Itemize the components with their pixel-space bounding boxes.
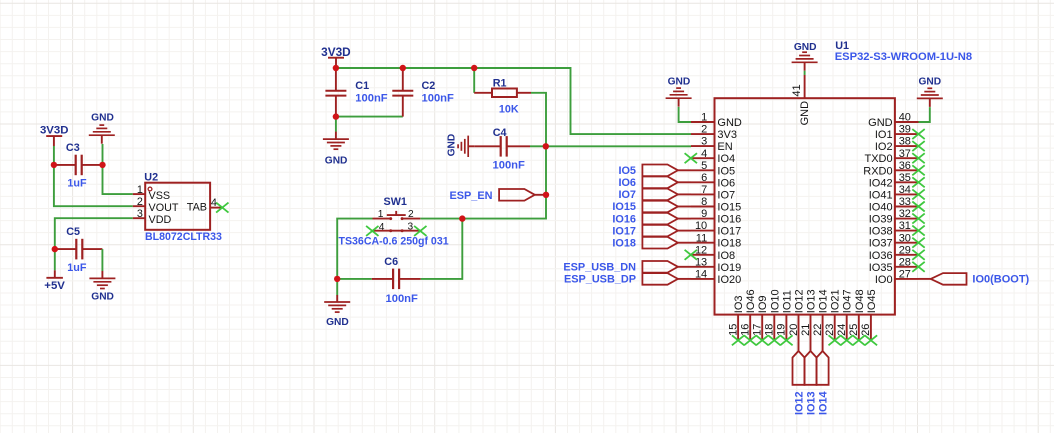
svg-text:1: 1: [137, 184, 143, 196]
svg-text:IO2: IO2: [875, 141, 893, 153]
ground GND (below C1): [323, 132, 349, 167]
svg-text:IO42: IO42: [869, 177, 893, 189]
svg-text:28: 28: [899, 256, 911, 268]
svg-text:IO13: IO13: [806, 289, 818, 313]
svg-text:IO8: IO8: [717, 250, 735, 262]
svg-text:IO36: IO36: [869, 250, 893, 262]
svg-text:VSS: VSS: [149, 190, 171, 202]
svg-text:3: 3: [408, 222, 414, 233]
junction at C3 right: [99, 162, 105, 168]
net tag IO18: [612, 237, 691, 250]
capacitor C1: [325, 68, 346, 117]
svg-text:2: 2: [408, 209, 414, 220]
svg-text:30: 30: [899, 232, 911, 244]
svg-text:7: 7: [701, 184, 707, 196]
wire C6 to SW1-right junction: [421, 219, 463, 279]
svg-text:IO12: IO12: [793, 391, 805, 415]
power flag +5V: [44, 270, 65, 292]
U1 bottom pin numbers: [727, 324, 872, 336]
wire EN net to SW1: [420, 146, 546, 218]
svg-text:VDD: VDD: [149, 214, 172, 226]
wire C4 to EN junction: [530, 145, 546, 147]
U1 right pin names: [863, 117, 892, 286]
svg-text:6: 6: [701, 172, 707, 184]
svg-text:32: 32: [899, 208, 911, 220]
svg-text:IO1: IO1: [875, 129, 893, 141]
svg-text:TS36CA-0.6 250gf 031: TS36CA-0.6 250gf 031: [339, 235, 449, 247]
label C1: [355, 80, 369, 92]
svg-text:GND: GND: [447, 134, 458, 157]
svg-text:ESP32-S3-WROOM-1U-N8: ESP32-S3-WROOM-1U-N8: [835, 51, 972, 63]
U1 bottom pin names: [733, 289, 878, 313]
no-connect X on U1 pin 12: [685, 250, 697, 260]
svg-text:IO20: IO20: [717, 274, 741, 286]
svg-text:4: 4: [701, 148, 707, 160]
U1 bottom pin leads: [738, 315, 871, 351]
svg-text:37: 37: [899, 148, 911, 160]
svg-text:IO48: IO48: [854, 289, 866, 313]
svg-text:C5: C5: [66, 226, 80, 238]
no-connect X on U1 pin 4: [685, 153, 697, 163]
no-connect X on U1 bottom pins 15-19: [732, 335, 793, 345]
svg-text:40: 40: [899, 112, 911, 124]
svg-text:IO18: IO18: [612, 237, 636, 249]
net tag IO12 (bottom): [793, 351, 806, 415]
capacitor C2: [392, 68, 413, 117]
wire EN to U1 pin 3: [546, 145, 691, 147]
U1 pin 41 name: [799, 101, 811, 126]
wire rail to R1: [473, 68, 475, 93]
svg-text:27: 27: [899, 269, 911, 281]
svg-text:2: 2: [137, 196, 143, 208]
svg-text:IO14: IO14: [818, 391, 830, 415]
svg-text:GND: GND: [868, 117, 893, 129]
svg-text:IO3: IO3: [733, 295, 745, 313]
svg-text:36: 36: [899, 160, 911, 172]
no-connect X on SW1 pin 4: [366, 226, 378, 236]
svg-text:24: 24: [836, 324, 848, 336]
svg-text:3V3: 3V3: [717, 129, 737, 141]
svg-text:18: 18: [764, 324, 776, 336]
no-connect X on U1 bottom pins 23-26: [829, 335, 878, 345]
wire C3 to U2 pin 1: [103, 165, 133, 194]
svg-text:IO40: IO40: [869, 202, 893, 214]
label C4: [493, 127, 507, 139]
svg-text:C1: C1: [355, 80, 369, 92]
net tag IO14 (bottom): [817, 351, 830, 415]
wire C6 left: [337, 278, 372, 280]
svg-text:22: 22: [812, 324, 824, 336]
svg-text:IO21: IO21: [830, 289, 842, 313]
label C3: [66, 142, 80, 154]
ground GND (top of C3): [89, 112, 115, 143]
label C5: [66, 226, 80, 238]
svg-text:23: 23: [824, 324, 836, 336]
net tag IO6: [618, 177, 691, 190]
svg-text:10: 10: [695, 220, 707, 232]
svg-text:C3: C3: [66, 142, 80, 154]
ground GND (left of C4, sideways): [447, 134, 475, 157]
svg-text:RXD0: RXD0: [863, 165, 892, 177]
no-connect X on U2 TAB: [216, 203, 228, 213]
svg-text:16: 16: [740, 324, 752, 336]
wire U2 pin 3 to C5: [55, 218, 133, 249]
svg-text:19: 19: [776, 324, 788, 336]
svg-text:R1: R1: [493, 77, 507, 89]
wire SW1 pin 1 to GND net: [337, 219, 372, 279]
svg-text:33: 33: [899, 196, 911, 208]
svg-text:100nF: 100nF: [493, 159, 525, 171]
wire GND to U1 pin 1: [679, 107, 691, 122]
junction EN at C4: [543, 143, 549, 149]
wire C6 to GND: [336, 279, 338, 295]
svg-text:SW1: SW1: [384, 196, 407, 208]
no-connect X on U1 right pins 39-28: [912, 129, 924, 272]
label SW1: [384, 196, 407, 208]
U1 right pin numbers: [899, 112, 911, 281]
junction rail at R1: [471, 65, 477, 71]
svg-text:IO47: IO47: [842, 289, 854, 313]
svg-text:GND: GND: [91, 292, 114, 303]
wire R1 to EN net: [531, 93, 546, 147]
svg-text:+5V: +5V: [44, 280, 65, 292]
svg-text:IO13: IO13: [805, 391, 817, 415]
net tag ESP_USB_DP: [564, 273, 691, 286]
svg-text:GND: GND: [918, 76, 941, 87]
net tag IO7: [618, 189, 691, 202]
wire 3V3D to U2 pin 2: [54, 165, 133, 206]
svg-text:1uF: 1uF: [67, 262, 87, 274]
svg-text:100nF: 100nF: [355, 92, 387, 104]
svg-text:VOUT: VOUT: [149, 202, 179, 214]
svg-text:ESP_EN: ESP_EN: [450, 190, 493, 202]
svg-text:EN: EN: [717, 141, 732, 153]
svg-text:2: 2: [701, 124, 707, 136]
svg-text:TXD0: TXD0: [864, 153, 892, 165]
svg-text:4: 4: [379, 222, 385, 233]
no-connect X on SW1 pin 3: [414, 226, 426, 236]
svg-text:ESP_USB_DN: ESP_USB_DN: [563, 262, 636, 274]
U1 top pin 41 lead: [804, 75, 806, 99]
svg-text:IO0: IO0: [875, 274, 893, 286]
value 100nF (C4): [493, 159, 525, 171]
svg-text:IO10: IO10: [769, 289, 781, 313]
wire C5 to GND: [101, 249, 103, 271]
svg-text:IO6: IO6: [717, 177, 735, 189]
svg-text:C6: C6: [384, 256, 398, 268]
svg-text:31: 31: [899, 220, 911, 232]
svg-text:IO35: IO35: [869, 262, 893, 274]
svg-text:29: 29: [899, 244, 911, 256]
svg-text:IO9: IO9: [757, 295, 769, 313]
svg-text:3V3D: 3V3D: [40, 125, 69, 137]
svg-text:IO6: IO6: [618, 177, 636, 189]
wire C5 to +5V: [54, 249, 56, 270]
net tag ESP_USB_DN: [563, 261, 691, 274]
svg-text:IO5: IO5: [618, 165, 636, 177]
U1 left pin names: [717, 117, 742, 286]
svg-text:IO37: IO37: [869, 238, 893, 250]
svg-text:1: 1: [378, 209, 384, 220]
svg-text:GND: GND: [799, 101, 811, 126]
wire ESP_EN tag to EN net: [535, 194, 546, 196]
svg-text:IO12: IO12: [794, 289, 806, 313]
svg-text:IO45: IO45: [866, 289, 878, 313]
svg-text:GND: GND: [717, 117, 742, 129]
label C6: [384, 256, 398, 268]
svg-text:IO39: IO39: [869, 214, 893, 226]
svg-text:ESP_USB_DP: ESP_USB_DP: [564, 274, 636, 286]
value 1uF (C3): [67, 177, 87, 189]
junction SW1 right / C6 riser: [459, 215, 465, 221]
ground GND (U1 pin 41): [792, 42, 818, 71]
label R1: [493, 77, 507, 89]
value 100nF (C6): [386, 293, 418, 305]
wire 3V3D rail to U1 pin 2: [336, 68, 691, 134]
svg-text:1uF: 1uF: [67, 177, 87, 189]
svg-text:IO17: IO17: [717, 226, 741, 238]
svg-text:IO7: IO7: [717, 189, 735, 201]
label U1: [835, 40, 849, 52]
svg-text:IO16: IO16: [612, 213, 636, 225]
svg-text:38: 38: [899, 136, 911, 148]
value ESP32-S3-WROOM-1U-N8: [835, 51, 972, 63]
power flag 3V3D (left): [40, 125, 69, 146]
IC U1 body: [715, 98, 895, 314]
net tag IO5: [618, 165, 691, 178]
capacitor C3: [54, 155, 103, 176]
svg-text:IO7: IO7: [618, 189, 636, 201]
U1 right pin leads: [895, 122, 919, 279]
svg-text:IO15: IO15: [717, 202, 741, 214]
svg-text:20: 20: [788, 324, 800, 336]
svg-text:GND: GND: [668, 77, 691, 88]
svg-text:8: 8: [701, 196, 707, 208]
svg-text:GND: GND: [91, 112, 114, 123]
capacitor C4: [474, 136, 530, 157]
svg-text:IO16: IO16: [717, 214, 741, 226]
svg-text:17: 17: [752, 324, 764, 336]
net tag IO17: [612, 225, 691, 238]
junction C6 left: [334, 276, 340, 282]
svg-text:U2: U2: [144, 172, 158, 184]
svg-text:IO38: IO38: [869, 226, 893, 238]
value 10K: [499, 103, 519, 115]
svg-text:IO46: IO46: [745, 289, 757, 313]
label U2: [144, 172, 158, 184]
svg-text:C2: C2: [422, 80, 436, 92]
svg-text:3: 3: [137, 208, 143, 220]
junction at C5 left: [52, 246, 58, 252]
svg-text:IO4: IO4: [717, 153, 735, 165]
svg-text:13: 13: [695, 256, 707, 268]
ground GND (below C5): [89, 271, 115, 303]
svg-text:100nF: 100nF: [386, 293, 418, 305]
wire GND to U1 pin 41: [804, 71, 806, 75]
net tag IO15: [612, 201, 691, 214]
svg-text:1: 1: [701, 112, 707, 124]
svg-text:39: 39: [899, 124, 911, 136]
SW1 pin numbers: [378, 209, 414, 233]
svg-text:C4: C4: [493, 127, 507, 139]
svg-text:IO5: IO5: [717, 165, 735, 177]
wire C1 to C2 (gnd link): [336, 116, 403, 118]
ground GND (below SW1): [324, 295, 350, 328]
capacitor C5: [55, 239, 103, 260]
value TS36CA-0.6 250gf 031: [339, 235, 449, 247]
wire GND to C3: [102, 144, 104, 165]
resistor R1: [474, 89, 531, 98]
svg-text:11: 11: [696, 232, 707, 244]
value 100nF (C1): [355, 92, 387, 104]
ground GND (U1 pin 1): [666, 77, 692, 107]
svg-text:TAB: TAB: [187, 202, 207, 214]
svg-text:IO14: IO14: [818, 289, 830, 313]
wire 3V3D to C3: [53, 146, 55, 165]
svg-text:IO11: IO11: [781, 290, 793, 313]
svg-text:100nF: 100nF: [422, 92, 454, 104]
svg-text:26: 26: [860, 324, 872, 336]
value 100nF (C2): [422, 92, 454, 104]
svg-text:IO18: IO18: [717, 238, 741, 250]
svg-text:14: 14: [695, 269, 707, 281]
junction ESP_EN: [543, 192, 549, 198]
svg-text:15: 15: [727, 324, 739, 336]
U2 pin names: [149, 190, 208, 226]
svg-text:GND: GND: [325, 156, 348, 167]
svg-text:41: 41: [791, 84, 803, 96]
svg-text:25: 25: [848, 324, 860, 336]
svg-text:34: 34: [899, 184, 911, 196]
svg-text:GND: GND: [794, 42, 817, 53]
U2 pin numbers: [137, 184, 217, 220]
wire GND to U1 pin 40: [919, 107, 930, 122]
svg-text:10K: 10K: [499, 103, 519, 115]
svg-text:IO17: IO17: [612, 225, 636, 237]
ground GND (U1 pin 40): [917, 76, 943, 107]
U1 left pin numbers: [695, 112, 707, 281]
svg-text:IO15: IO15: [612, 201, 636, 213]
U1 pin 41 number: [791, 84, 803, 96]
junction below C1: [333, 113, 339, 119]
svg-text:21: 21: [800, 324, 812, 336]
svg-text:GND: GND: [326, 317, 349, 328]
switch SW1: [373, 211, 421, 232]
net tag IO13 (bottom): [805, 351, 818, 415]
svg-text:9: 9: [701, 208, 707, 220]
label C2: [422, 80, 436, 92]
IC U2 body: [133, 183, 223, 230]
svg-text:BL8072CLTR33: BL8072CLTR33: [145, 231, 222, 243]
U1 left pin leads: [691, 122, 715, 279]
capacitor C6: [372, 269, 421, 290]
power flag 3V3D (middle): [321, 45, 351, 66]
svg-text:5: 5: [701, 160, 707, 172]
net tag ESP_EN: [450, 189, 535, 202]
junction at C3 left: [51, 162, 57, 168]
svg-text:3: 3: [701, 136, 707, 148]
wire C1 to GND: [335, 117, 337, 132]
junction rail at 3V3D: [333, 65, 339, 71]
svg-text:IO0(BOOT): IO0(BOOT): [972, 274, 1029, 286]
net tag IO16: [612, 213, 691, 226]
junction rail at C2: [400, 65, 406, 71]
svg-text:IO19: IO19: [717, 262, 741, 274]
value 1uF (C5): [67, 262, 87, 274]
svg-text:35: 35: [899, 172, 911, 184]
svg-text:IO41: IO41: [869, 189, 893, 201]
net tag IO0(BOOT): [919, 273, 1030, 286]
value BL8072CLTR33: [145, 231, 222, 243]
